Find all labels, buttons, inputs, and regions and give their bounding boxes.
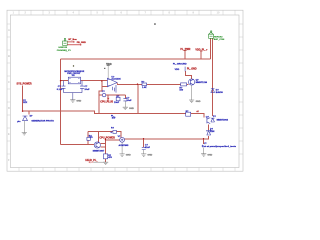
svg-text:GND: GND	[196, 101, 201, 103]
svg-text:PL_PWR: PL_PWR	[180, 48, 190, 51]
wire cap C5 stub	[143, 139, 145, 147]
svg-text:VDD_PL_+: VDD_PL_+	[195, 48, 208, 51]
capacitor C4	[123, 99, 127, 101]
wire zener to cluster	[208, 125, 210, 130]
ground under cap C5	[141, 150, 146, 157]
wire SYS vertical left	[22, 85, 24, 111]
wire CPU_PLUS stub	[107, 95, 109, 100]
svg-text:GND: GND	[147, 155, 152, 157]
svg-text:BAV99: BAV99	[216, 91, 224, 94]
resistor R7	[181, 83, 187, 86]
border ticks top	[19, 10, 235, 15]
svg-text:ACM7805: ACM7805	[119, 144, 130, 147]
svg-text:BZX: BZX	[23, 102, 28, 104]
source V1	[120, 137, 125, 142]
capacitor C5	[142, 147, 146, 149]
transistor Q4	[94, 142, 100, 148]
wire base row to Q4	[61, 144, 95, 146]
svg-text:C: C	[8, 80, 10, 84]
regulator U5	[68, 77, 80, 84]
wire P1 out 2 w/ arrow	[67, 44, 81, 46]
ground under jumper J1	[201, 148, 206, 157]
resistor R3	[104, 154, 108, 159]
svg-text:0.1uF: 0.1uF	[57, 89, 63, 91]
ground under zener D4	[22, 121, 27, 135]
svg-text:D: D	[8, 106, 10, 110]
wire Q4 stubs	[100, 144, 105, 148]
wire op-amp output row	[117, 83, 189, 85]
svg-text:GND: GND	[129, 108, 134, 110]
sheet border frame	[7, 10, 243, 171]
zener D5	[206, 130, 211, 136]
wire PL_GND L to Q2	[186, 71, 192, 79]
wire feedback vertical	[137, 84, 139, 113]
tiny mark a (inside block)	[73, 65, 74, 66]
wire P1 out 1 w/ arrow	[67, 41, 74, 43]
junction dots	[22, 80, 204, 140]
svg-text:MMBT3904: MMBT3904	[217, 118, 229, 121]
wire V1 top corner	[88, 131, 121, 137]
border ticks bottom	[19, 168, 235, 172]
op-amp U2	[107, 78, 117, 92]
svg-text:GND: GND	[207, 155, 212, 157]
wire stub PL_PWR label	[184, 51, 187, 60]
svg-text:10uF: 10uF	[126, 100, 132, 102]
svg-text:CHG/SEQ_P1: CHG/SEQ_P1	[57, 50, 72, 52]
resistor R9 hanging	[116, 97, 120, 101]
svg-text:CPU_PLUS: CPU_PLUS	[100, 101, 113, 104]
wire connector P2 right pin main vertical	[212, 38, 214, 116]
svg-text:BAT_CON: BAT_CON	[214, 38, 225, 41]
tiny mark a (upper middle)	[154, 23, 155, 25]
capacitor C2	[80, 81, 84, 93]
connector P2 (green, top)	[209, 31, 214, 38]
wire low net across	[23, 111, 205, 118]
svg-text:FB_GND: FB_GND	[77, 42, 86, 44]
svg-text:B: B	[8, 54, 10, 58]
VCC symbol	[104, 62, 112, 79]
wire connector P2 left pin	[210, 38, 212, 59]
svg-text:10uF: 10uF	[114, 102, 120, 104]
border cell letters	[8, 11, 220, 162]
capacitor C1	[62, 81, 66, 93]
svg-text:SYS_POWER: SYS_POWER	[17, 83, 32, 86]
wire V1 left	[106, 139, 120, 141]
wire stub VDD_PL label	[200, 51, 203, 59]
wire op-amp minus input	[102, 81, 107, 86]
ground under R3 HELD	[93, 162, 108, 164]
transistor pair Q3/D3	[207, 118, 215, 124]
svg-text:GND: GND	[126, 155, 131, 157]
svg-text:VDD: VDD	[175, 69, 180, 71]
svg-text:ZEN: ZEN	[210, 131, 215, 133]
wire regulator row	[61, 80, 108, 82]
svg-text:MMBT2907: MMBT2907	[93, 150, 105, 152]
wire feedback node	[99, 86, 102, 113]
svg-text:Cut at pwm/jumper/brd_tests: Cut at pwm/jumper/brd_tests	[202, 145, 237, 148]
border ticks left	[7, 24, 10, 154]
svg-text:GND: GND	[76, 101, 81, 103]
zener D4 left	[23, 116, 28, 121]
diode D2 on main vertical	[211, 89, 215, 93]
svg-text:10uF: 10uF	[84, 89, 90, 91]
svg-text:BT_Bus: BT_Bus	[68, 39, 77, 41]
ground under cap C4	[123, 101, 128, 110]
wire feedback horizontal w/ series cap	[99, 94, 125, 96]
wire top net horizontal	[61, 58, 211, 60]
wire jumper stub	[203, 139, 205, 144]
wire stub zener D4	[28, 111, 30, 114]
svg-text:PL_GROUND: PL_GROUND	[173, 64, 187, 66]
svg-text:MMBT1234: MMBT1234	[196, 81, 208, 84]
wire bottom net	[125, 136, 209, 139]
wire left edge vertical	[60, 59, 62, 144]
wire Q4 collector up	[88, 131, 99, 144]
svg-text:A: A	[8, 28, 10, 32]
ground under V1	[120, 142, 125, 156]
svg-text:PL_GND: PL_GND	[187, 68, 197, 71]
connector P1 (green, left)	[63, 38, 68, 45]
wire CPU_POWER rail	[105, 138, 107, 162]
svg-text:HELD_PL_: HELD_PL_	[85, 159, 98, 162]
svg-text:22uF: 22uF	[145, 147, 151, 149]
border ticks right	[239, 24, 243, 154]
svg-text:CPU_POWER: CPU_POWER	[99, 136, 115, 139]
ground under regulator	[64, 93, 83, 103]
svg-text:1.0K: 1.0K	[142, 87, 147, 89]
wire cap C4 corner	[124, 95, 126, 99]
svg-text:ALS1234: ALS1234	[111, 78, 121, 81]
svg-text:E: E	[8, 132, 10, 136]
ground under Q2	[189, 85, 194, 102]
svg-text:GENERATOR PROTO: GENERATOR PROTO	[31, 119, 54, 122]
series capacitor C3 on feedback	[102, 93, 105, 96]
transistor Q2	[189, 79, 195, 85]
